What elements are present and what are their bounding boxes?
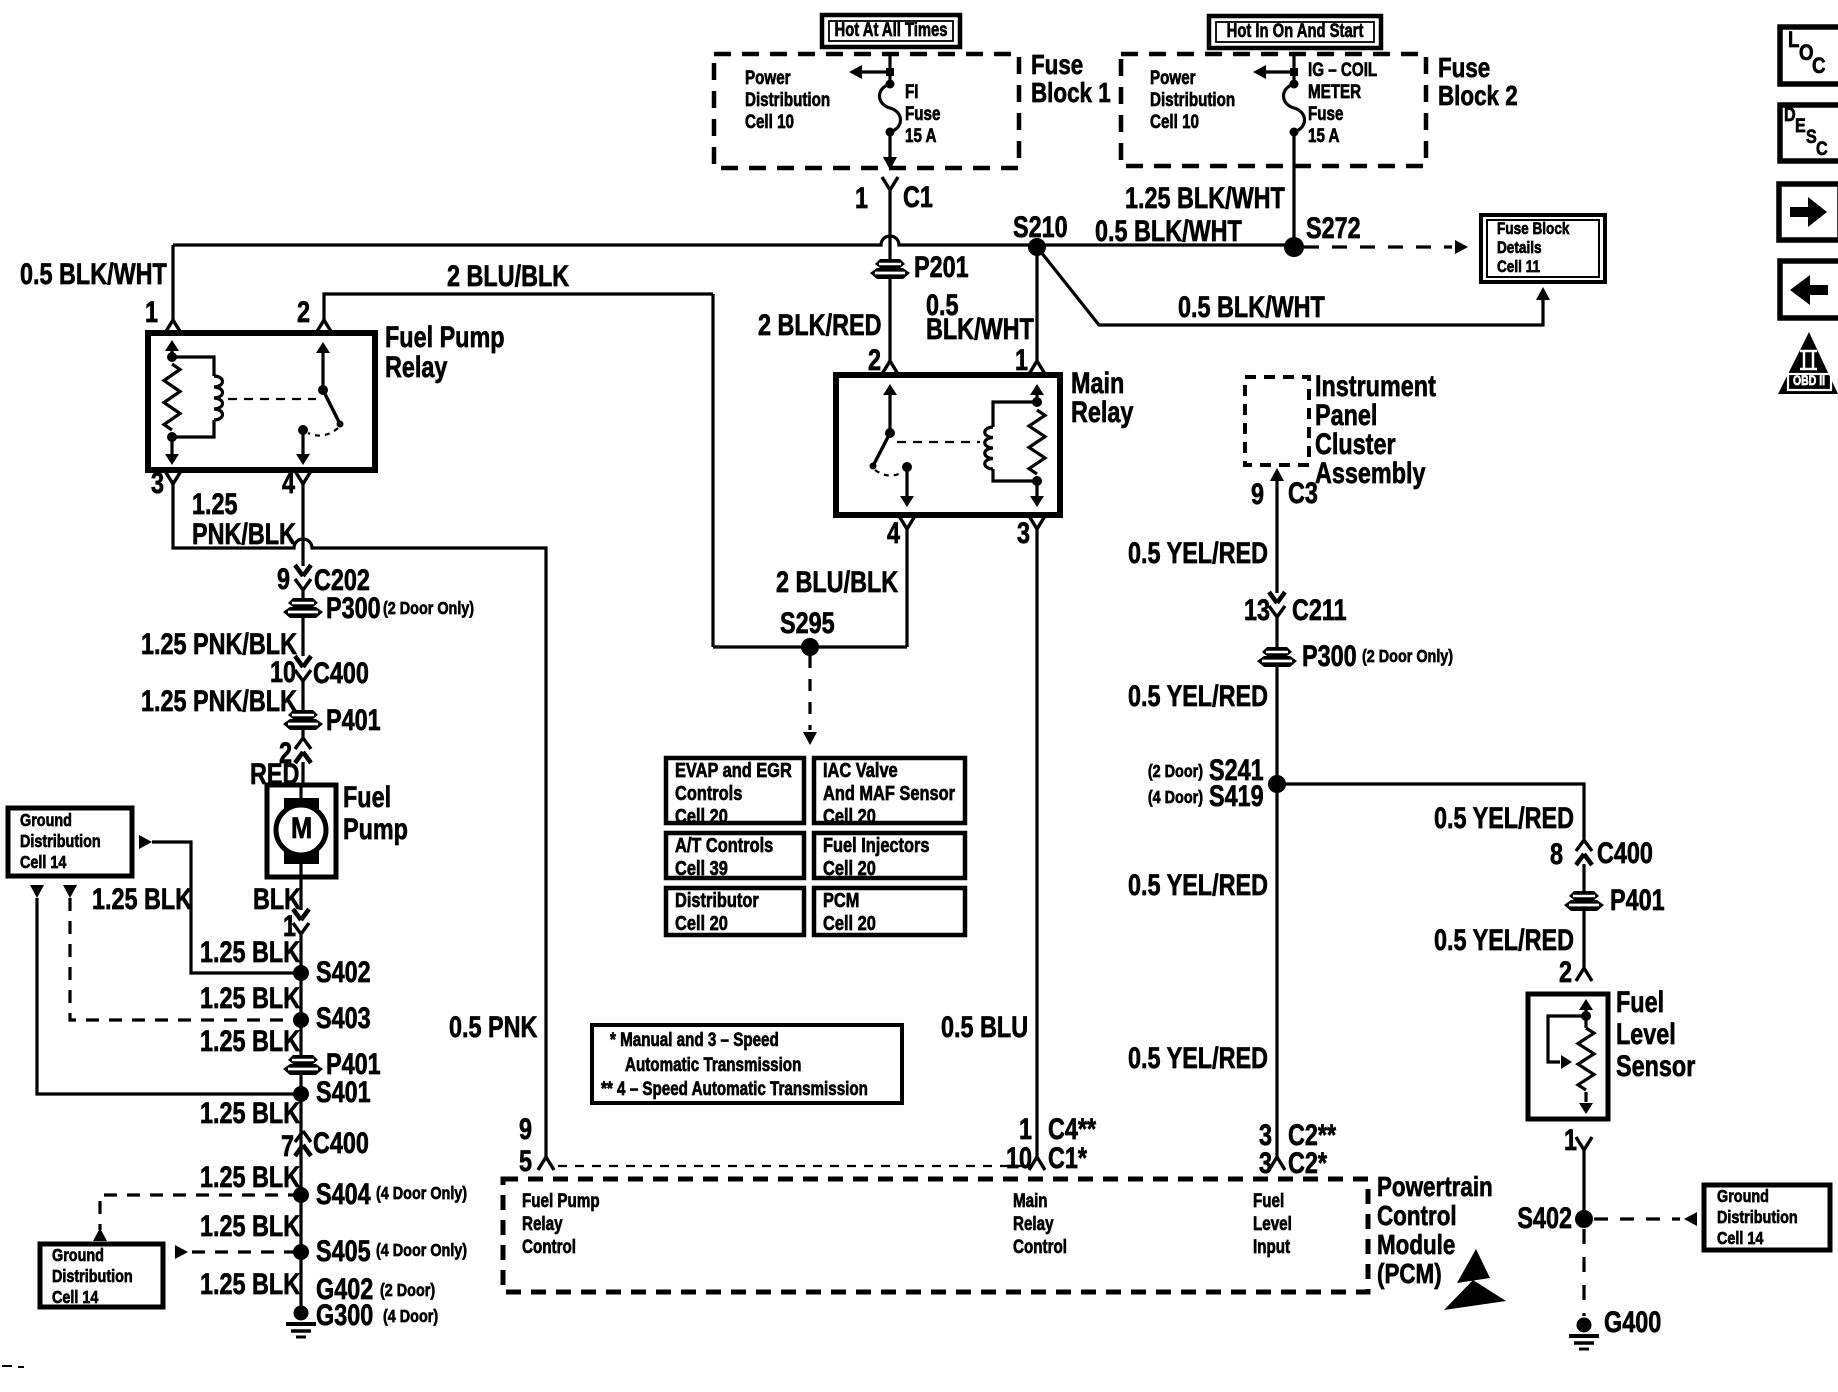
svg-text:2 BLK/RED: 2 BLK/RED	[758, 308, 881, 341]
svg-text:G300: G300	[316, 1298, 373, 1331]
fuel level sensor node	[1581, 1011, 1591, 1021]
fuse IG-COIL METER 15 A symbol	[1290, 80, 1299, 89]
wire: S295 horizontal	[713, 645, 907, 648]
svg-text:Automatic Transmission: Automatic Transmission	[625, 1053, 801, 1075]
svg-text:S404: S404	[316, 1177, 371, 1210]
connector P401 (left chain lower)	[288, 1055, 318, 1064]
svg-text:2 BLU/BLK: 2 BLU/BLK	[447, 259, 570, 292]
svg-text:9: 9	[1251, 477, 1264, 510]
node S401	[293, 1086, 309, 1102]
connector P300 (cluster)	[1262, 647, 1292, 656]
node S210	[1028, 238, 1046, 256]
svg-text:Fuse Block: Fuse Block	[1497, 220, 1570, 239]
connector fuel pump pin 2	[295, 752, 303, 763]
svg-text:C400: C400	[313, 656, 369, 689]
instrument panel cluster dashed box	[1245, 377, 1309, 465]
svg-text:IG – COIL: IG – COIL	[1308, 58, 1377, 80]
svg-text:L: L	[1788, 29, 1799, 53]
svg-text:Power: Power	[745, 66, 791, 88]
svg-text:Relay: Relay	[1071, 395, 1133, 428]
svg-text:0.5 YEL/RED: 0.5 YEL/RED	[1128, 536, 1268, 569]
svg-text:0.5 BLU: 0.5 BLU	[941, 1010, 1028, 1043]
svg-text:Distribution: Distribution	[20, 832, 101, 852]
fuel pump motor bottom brush	[284, 851, 319, 864]
wire: fuse block 1 feed from top	[888, 55, 891, 84]
svg-text:Distribution: Distribution	[52, 1267, 133, 1287]
svg-text:OBD II: OBD II	[1793, 373, 1825, 389]
svg-text:8: 8	[1550, 837, 1563, 870]
fuel pump relay arrow down to pin 3	[170, 437, 173, 455]
svg-text:1.25 BLK: 1.25 BLK	[200, 1096, 301, 1129]
svg-text:1.25 BLK: 1.25 BLK	[200, 981, 301, 1014]
svg-text:C: C	[1816, 138, 1828, 160]
box: A/T Controls Cell 39	[666, 833, 804, 878]
fuel level sensor wiper branch	[1548, 1016, 1586, 1062]
svg-text:0.5 YEL/RED: 0.5 YEL/RED	[1434, 801, 1574, 834]
connector P401 (right)	[1569, 891, 1599, 900]
label box: Hot In On And Start	[1209, 16, 1381, 48]
svg-text:0.5 BLK/WHT: 0.5 BLK/WHT	[1095, 214, 1242, 247]
svg-text:Fuse: Fuse	[905, 102, 940, 124]
main relay node bottom-right	[1032, 476, 1042, 486]
svg-text:15 A: 15 A	[905, 124, 937, 146]
svg-text:C3: C3	[1288, 476, 1318, 509]
svg-text:4: 4	[282, 466, 295, 499]
svg-text:2: 2	[868, 343, 881, 376]
fuel pump relay coil branch	[172, 357, 214, 376]
svg-text:Fuse: Fuse	[1438, 53, 1490, 84]
fuel pump relay node bottom-left	[167, 432, 177, 442]
fuse block 2 dashed box	[1121, 54, 1426, 166]
svg-text:0.5 YEL/RED: 0.5 YEL/RED	[1128, 1041, 1268, 1074]
dashed wire S272 to fuse block details	[1304, 245, 1452, 248]
svg-text:3: 3	[1017, 516, 1030, 549]
svg-text:Block 1: Block 1	[1031, 78, 1111, 109]
wire: C1 down to main bus	[888, 190, 891, 245]
svg-text:2: 2	[1559, 955, 1572, 988]
svg-text:S419: S419	[1209, 779, 1264, 812]
svg-text:Cell 14: Cell 14	[20, 853, 66, 873]
svg-text:Cell 14: Cell 14	[1717, 1229, 1763, 1249]
box: IAC Valve And MAF Sensor Cell 20	[814, 758, 965, 823]
wire: fuse to C1 with arrow	[888, 132, 891, 158]
connector pin 1 main relay	[1029, 361, 1037, 374]
svg-text:0.5 YEL/RED: 0.5 YEL/RED	[1128, 679, 1268, 712]
main relay coil branch	[993, 402, 1037, 427]
fuel pump relay dashed coupling link	[228, 398, 316, 400]
fuel pump relay switch dashed throw arc	[308, 428, 338, 436]
svg-text:4: 4	[887, 516, 900, 549]
svg-text:IAC Valve: IAC Valve	[823, 758, 898, 781]
svg-text:(4 Door Only): (4 Door Only)	[376, 1184, 467, 1204]
node S241/S419	[1268, 775, 1286, 793]
fuel pump relay switch arrow to pin 2	[321, 350, 324, 388]
wire: main relay pin 3 down to PCM C1	[1035, 529, 1038, 1145]
node S402 right	[1575, 1210, 1593, 1228]
svg-text:Control: Control	[1013, 1235, 1067, 1257]
wire: 2 BLU/BLK column down to S295	[711, 294, 714, 647]
svg-text:G400: G400	[1604, 1305, 1661, 1338]
connector C400 pin 7	[295, 1145, 303, 1156]
main relay node top-right	[1032, 397, 1042, 407]
svg-text:Distribution: Distribution	[1717, 1208, 1798, 1228]
svg-text:Relay: Relay	[522, 1212, 563, 1234]
main relay box	[836, 375, 1060, 515]
svg-text:Cell 39: Cell 39	[675, 856, 728, 879]
svg-text:9: 9	[519, 1112, 532, 1145]
PCM dashed box	[503, 1179, 1368, 1292]
svg-text:S402: S402	[316, 955, 371, 988]
svg-text:13: 13	[1244, 593, 1270, 626]
svg-text:* Manual and 3 – Speed: * Manual and 3 – Speed	[610, 1028, 779, 1050]
wire: cluster C3 arrow up	[1270, 468, 1284, 481]
connector fuel level sensor pin 1	[1576, 1137, 1584, 1150]
svg-text:3: 3	[1259, 1146, 1272, 1179]
svg-text:15 A: 15 A	[1308, 124, 1340, 146]
svg-text:Cell 20: Cell 20	[675, 804, 728, 827]
node S405	[293, 1244, 309, 1260]
main relay dashed coupling link	[897, 441, 980, 443]
icon: OBD II triangle	[1778, 332, 1838, 394]
wire: P201 column down to main relay pin 2	[888, 245, 891, 261]
svg-text:METER: METER	[1308, 80, 1362, 102]
arrow branch to power distribution (block 1)	[855, 70, 890, 73]
node S402 left	[293, 965, 309, 981]
svg-text:EVAP and EGR: EVAP and EGR	[675, 758, 792, 781]
svg-text:7: 7	[281, 1129, 294, 1162]
svg-text:Cell 14: Cell 14	[52, 1288, 98, 1308]
svg-text:Fuse: Fuse	[1308, 102, 1343, 124]
svg-text:Power: Power	[1150, 66, 1196, 88]
dashed wire: S402 to ground distribution (right)	[1594, 1217, 1680, 1220]
svg-text:P300: P300	[326, 591, 381, 624]
wire: pin 4 down to C202	[301, 484, 304, 566]
connector pin 2 main relay	[882, 361, 890, 374]
svg-text:C1: C1	[903, 180, 933, 213]
fuel pump relay internal: pin1 arrow up	[170, 348, 173, 356]
ground box down arrows	[30, 885, 44, 898]
svg-text:1: 1	[1564, 1123, 1577, 1156]
wire: fuse block 2 down to S272	[1292, 132, 1295, 245]
fuel pump box	[267, 785, 336, 877]
connector fuel pump pin 1	[293, 909, 301, 920]
connector PCM C2 cup	[1275, 1145, 1278, 1157]
svg-text:And MAF Sensor: And MAF Sensor	[823, 781, 955, 804]
wire through fuel pump	[299, 785, 302, 877]
svg-text:C2*: C2*	[1288, 1146, 1327, 1179]
connector P401 (left chain upper)	[288, 710, 318, 719]
page artifact dashes bottom-left	[2, 1365, 12, 1367]
svg-text:C1*: C1*	[1048, 1141, 1087, 1174]
svg-text:Fuel: Fuel	[343, 780, 391, 813]
connector pin 4 main relay	[899, 516, 907, 529]
wire: S210 diagonal branch to fuse block details	[1037, 247, 1543, 325]
svg-text:Fuel Pump: Fuel Pump	[522, 1189, 600, 1211]
svg-text:S295: S295	[780, 606, 835, 639]
svg-text:S402: S402	[1517, 1201, 1572, 1234]
svg-text:Distribution: Distribution	[1150, 88, 1235, 110]
dashed wire: S404 to lower ground box arrow	[100, 1195, 301, 1230]
svg-text:0.5 YEL/RED: 0.5 YEL/RED	[1434, 923, 1574, 956]
svg-text:1: 1	[1015, 343, 1028, 376]
svg-text:1.25 BLK: 1.25 BLK	[92, 882, 193, 915]
main relay switch pivot	[885, 428, 895, 438]
svg-text:Main: Main	[1013, 1189, 1048, 1211]
svg-text:Level: Level	[1616, 1017, 1676, 1050]
svg-text:Cell 20: Cell 20	[823, 856, 876, 879]
fuel pump relay arrow down to pin 4	[301, 430, 304, 455]
wire: ground box to S401 (solid)	[37, 898, 301, 1094]
svg-text:(2 Door): (2 Door)	[380, 1281, 435, 1301]
svg-text:1.25 BLK/WHT: 1.25 BLK/WHT	[1125, 181, 1285, 214]
svg-text:Fuse: Fuse	[1031, 50, 1083, 81]
svg-text:Control: Control	[1377, 1201, 1457, 1232]
wire: fuel pump to pin 1	[299, 877, 302, 910]
connector pin 3 fuel pump relay	[165, 471, 173, 484]
connector pin 1 fuel pump relay	[165, 320, 173, 333]
svg-text:1.25 PNK/BLK: 1.25 PNK/BLK	[141, 684, 297, 717]
main relay switch dashed throw arc	[875, 470, 903, 476]
svg-text:P401: P401	[326, 1047, 381, 1080]
fuel pump relay switch pivot	[318, 385, 328, 395]
ESD symbol	[1457, 1249, 1490, 1283]
connector pin 2 fuel pump relay	[316, 320, 324, 333]
svg-text:Cell 10: Cell 10	[745, 110, 794, 132]
svg-text:A/T Controls: A/T Controls	[675, 833, 773, 856]
connector PCM C1/C4 cup	[1035, 1145, 1038, 1157]
fuel pump relay resistor	[164, 364, 180, 430]
svg-text:FI: FI	[905, 80, 919, 102]
svg-text:2 BLU/BLK: 2 BLU/BLK	[776, 565, 899, 598]
svg-text:Ground: Ground	[1717, 1187, 1769, 1207]
svg-text:Input: Input	[1253, 1235, 1290, 1257]
thin dashed connector row line	[558, 1165, 1022, 1167]
svg-text:(2 Door Only): (2 Door Only)	[383, 599, 474, 619]
fuel pump relay node pin4	[298, 425, 308, 435]
svg-text:0.5 BLK/WHT: 0.5 BLK/WHT	[20, 257, 167, 290]
main bus wire with hop over P201 column	[173, 236, 1294, 245]
svg-text:Block 2: Block 2	[1438, 81, 1518, 112]
svg-text:S272: S272	[1306, 211, 1361, 244]
connector C1 pin 1 cup	[882, 177, 890, 190]
box: PCM Cell 20	[814, 888, 965, 935]
svg-text:3: 3	[151, 466, 164, 499]
connector P300 (left chain)	[288, 598, 318, 607]
svg-text:PNK/BLK: PNK/BLK	[192, 517, 296, 550]
svg-text:Module: Module	[1377, 1230, 1455, 1261]
fuel level sensor box	[1528, 994, 1608, 1119]
svg-text:PCM: PCM	[823, 888, 859, 911]
fuel level sensor resistor	[1584, 1016, 1587, 1028]
wire: sensor pin 1 to S402	[1582, 1150, 1585, 1219]
svg-text:M: M	[291, 811, 312, 844]
dashed wire: ground box to S403	[70, 898, 301, 1020]
svg-text:C400: C400	[1597, 836, 1653, 869]
svg-text:Distributor: Distributor	[675, 888, 759, 911]
svg-text:Cell 20: Cell 20	[823, 911, 876, 934]
svg-text:1: 1	[145, 295, 158, 328]
svg-text:BLK/WHT: BLK/WHT	[926, 312, 1034, 345]
connector C400 pin 8	[1576, 854, 1584, 865]
fuel pump relay switch blade	[323, 390, 340, 424]
node S272	[1284, 237, 1304, 257]
svg-text:0.5 BLK/WHT: 0.5 BLK/WHT	[1178, 290, 1325, 323]
svg-text:(2 Door Only): (2 Door Only)	[1362, 647, 1453, 667]
arrow branch to power distribution (block 2)	[1259, 70, 1294, 73]
svg-text:Powertrain: Powertrain	[1377, 1172, 1493, 1203]
note box: transmission footnotes	[592, 1025, 902, 1103]
svg-text:Sensor: Sensor	[1616, 1049, 1696, 1082]
wire: main relay pin 4 down to S295 bus	[905, 529, 908, 647]
main relay switch blade	[873, 433, 890, 466]
fuel pump motor top brush	[284, 798, 319, 811]
connector fuel level sensor pin 2	[1576, 968, 1584, 981]
svg-text:C: C	[1812, 55, 1826, 79]
icon: LOC box	[1780, 27, 1838, 84]
svg-text:(PCM): (PCM)	[1377, 1259, 1442, 1290]
svg-text:C400: C400	[313, 1126, 369, 1159]
wire: pin 3 to PCM pin 5 (0.5 PNK) with hop	[173, 483, 546, 1157]
svg-text:Relay: Relay	[385, 350, 447, 383]
fuse block 1 dashed box	[714, 54, 1019, 168]
svg-text:Fuel Injectors: Fuel Injectors	[823, 833, 930, 856]
svg-text:Controls: Controls	[675, 781, 742, 804]
svg-text:P401: P401	[1610, 883, 1665, 916]
box: Distributor Cell 20	[666, 888, 804, 935]
connector C211 pin 13	[1269, 592, 1277, 603]
arrow from ground distribution to S402 wire	[139, 835, 152, 849]
label box: Hot At All Times	[822, 15, 960, 47]
svg-text:0.5 YEL/RED: 0.5 YEL/RED	[1128, 868, 1268, 901]
svg-text:P201: P201	[914, 250, 969, 283]
svg-text:Fuel: Fuel	[1616, 985, 1664, 1018]
svg-text:Relay: Relay	[1013, 1212, 1054, 1234]
svg-text:Level: Level	[1253, 1212, 1292, 1234]
fuel level sensor arrow down	[1584, 1092, 1587, 1102]
svg-text:Control: Control	[522, 1235, 576, 1257]
svg-text:9: 9	[277, 562, 290, 595]
svg-text:Cell 10: Cell 10	[1150, 110, 1199, 132]
svg-text:Cell 20: Cell 20	[823, 804, 876, 827]
wire: 2 BLU/BLK from fuel pump relay pin 2	[324, 294, 713, 320]
main relay switch arrow to pin 2	[888, 392, 891, 432]
wire: S210 down to main relay pin 1	[1035, 247, 1038, 361]
svg-text:1.25: 1.25	[192, 487, 238, 520]
connector P201	[875, 259, 905, 268]
ground distribution box lower-left	[40, 1244, 163, 1307]
svg-text:** 4 – Speed Automatic Transmi: ** 4 – Speed Automatic Transmission	[601, 1077, 868, 1099]
arrow from lower ground box to S405	[175, 1245, 188, 1259]
svg-text:(4 Door Only): (4 Door Only)	[376, 1241, 467, 1261]
dashed arrow S295 to control boxes	[808, 656, 811, 730]
node S403	[293, 1012, 309, 1028]
icon: forward arrow box	[1779, 184, 1838, 240]
svg-text:Ground: Ground	[20, 811, 72, 831]
svg-text:S403: S403	[316, 1001, 371, 1034]
wire: bus down to fuel pump relay pin 1	[171, 245, 174, 320]
fuel pump relay box	[148, 333, 375, 470]
svg-text:Pump: Pump	[343, 812, 408, 845]
connector C202 pin 9	[295, 565, 303, 576]
main relay resistor	[1029, 410, 1045, 474]
svg-text:S405: S405	[316, 1234, 371, 1267]
wire: S241 branch to fuel level sensor column	[1277, 784, 1584, 840]
svg-text:Hot In On And Start: Hot In On And Start	[1227, 20, 1364, 41]
svg-text:Fuel Pump: Fuel Pump	[385, 320, 505, 353]
connector PCM pin 5 cup	[538, 1157, 546, 1170]
svg-text:(4 Door): (4 Door)	[383, 1307, 438, 1327]
svg-text:C211: C211	[1292, 593, 1347, 626]
wire: fuse block 2 feed from top	[1292, 55, 1295, 84]
ground symbol G400	[1577, 1318, 1592, 1333]
svg-text:P401: P401	[326, 703, 381, 736]
svg-text:1.25 BLK: 1.25 BLK	[200, 935, 301, 968]
box: EVAP and EGR Controls Cell 20	[666, 758, 804, 823]
svg-text:0.5 PNK: 0.5 PNK	[449, 1010, 538, 1043]
svg-text:(2 Door): (2 Door)	[1148, 762, 1203, 782]
svg-text:D: D	[1784, 104, 1796, 126]
ground distribution box right	[1704, 1185, 1830, 1250]
svg-text:Cell 20: Cell 20	[675, 911, 728, 934]
main relay node pin4	[902, 462, 912, 472]
svg-text:1.25 BLK: 1.25 BLK	[200, 1209, 301, 1242]
svg-text:Fuel: Fuel	[1253, 1189, 1284, 1211]
icon: back arrow box	[1780, 261, 1838, 318]
fuel pump relay node top-left	[167, 352, 177, 362]
fuse block details box	[1481, 215, 1605, 282]
svg-text:E: E	[1795, 115, 1806, 137]
node S295	[801, 638, 819, 656]
connector pin 4 fuel pump relay	[295, 471, 303, 484]
icon: DESC box	[1780, 105, 1838, 161]
svg-text:(4 Door): (4 Door)	[1148, 788, 1203, 808]
dashed wire: S402 down to G400	[1582, 1229, 1585, 1316]
svg-text:10: 10	[1006, 1141, 1032, 1174]
connector pin 3 main relay	[1029, 516, 1037, 529]
svg-text:1.25 BLK: 1.25 BLK	[200, 1160, 301, 1193]
main relay arrow down to pin 4	[905, 467, 908, 497]
box: Fuel Injectors Cell 20	[814, 833, 965, 878]
svg-text:Details: Details	[1497, 239, 1542, 258]
fuel level sensor internal arrow up	[1584, 1008, 1587, 1012]
ground symbol G300	[294, 1306, 309, 1321]
main relay pin1 arrow up	[1035, 392, 1038, 402]
svg-text:Hot At All Times: Hot At All Times	[835, 19, 948, 40]
main relay arrow down to pin 3	[1035, 481, 1038, 497]
svg-text:Ground: Ground	[52, 1246, 104, 1266]
svg-text:S210: S210	[1013, 210, 1068, 243]
svg-text:Cell 11: Cell 11	[1497, 258, 1540, 277]
fuel pump motor circle	[276, 805, 326, 855]
svg-text:1.25 BLK: 1.25 BLK	[200, 1024, 301, 1057]
svg-text:2: 2	[297, 295, 310, 328]
node S404	[293, 1187, 309, 1203]
fuse FI 15 A symbol	[886, 80, 895, 89]
connector C400 pin 10	[295, 656, 303, 667]
svg-text:5: 5	[519, 1144, 532, 1177]
svg-text:1.25 BLK: 1.25 BLK	[200, 1267, 301, 1300]
svg-text:1: 1	[855, 181, 868, 214]
svg-text:Assembly: Assembly	[1315, 456, 1426, 489]
svg-text:P300: P300	[1302, 639, 1357, 672]
svg-text:Distribution: Distribution	[745, 88, 830, 110]
ground distribution box left	[8, 808, 132, 876]
